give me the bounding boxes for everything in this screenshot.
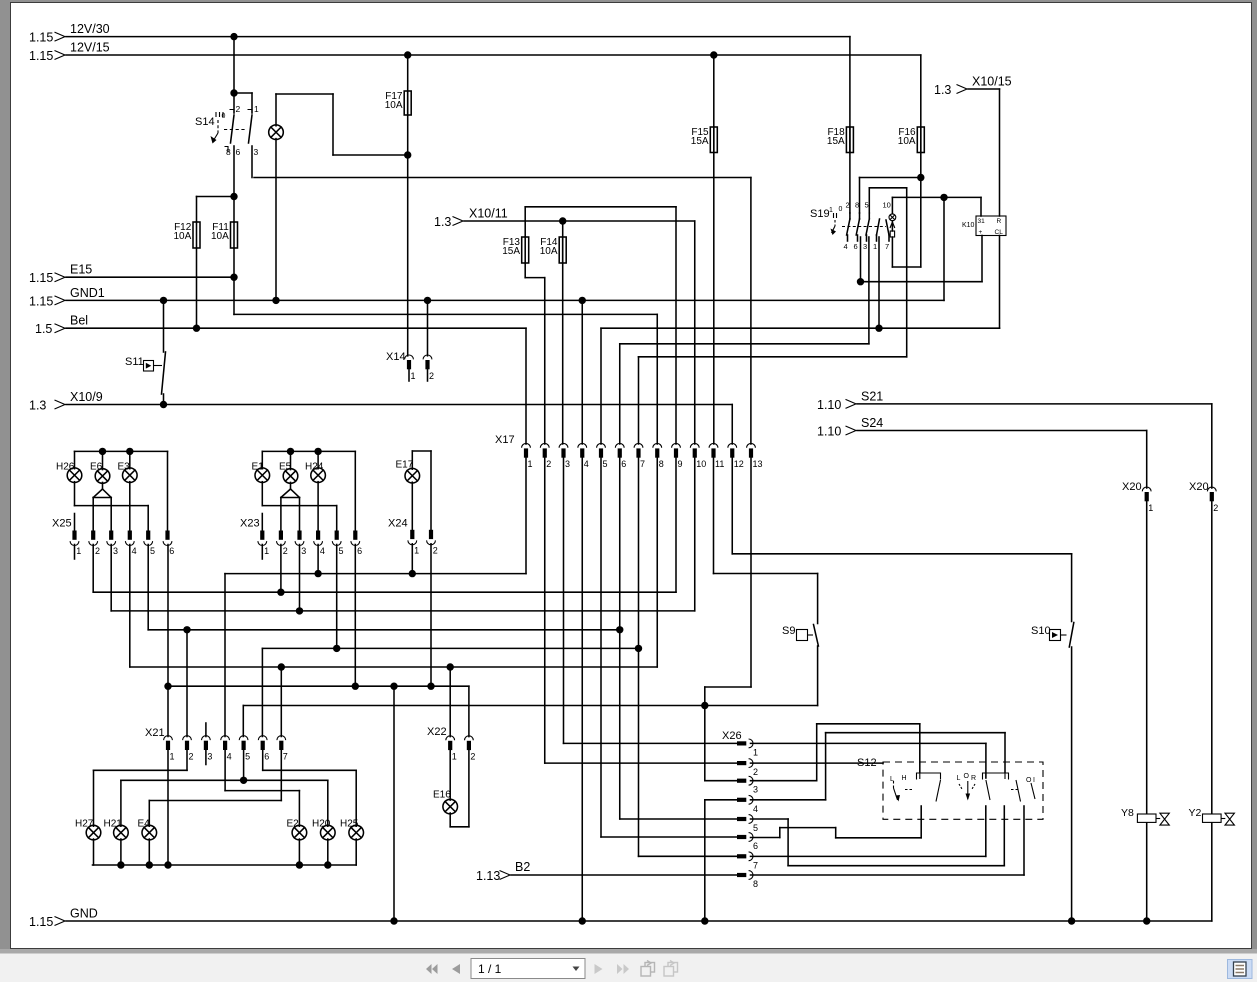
svg-text:1: 1 [829, 207, 833, 214]
svg-text:X10/11: X10/11 [469, 207, 508, 221]
svg-text:1.15: 1.15 [29, 31, 53, 45]
svg-text:15A: 15A [691, 136, 709, 147]
svg-text:Y8: Y8 [1121, 807, 1134, 819]
svg-text:3: 3 [113, 546, 118, 556]
svg-text:1.15: 1.15 [29, 49, 53, 63]
svg-text:15A: 15A [827, 136, 845, 147]
svg-text:X25: X25 [52, 518, 72, 530]
svg-text:10A: 10A [174, 231, 192, 242]
svg-text:10A: 10A [385, 100, 403, 111]
svg-text:1: 1 [452, 752, 457, 762]
svg-text:X20: X20 [1122, 481, 1142, 493]
svg-text:1: 1 [254, 104, 259, 114]
svg-text:15A: 15A [502, 246, 520, 257]
svg-text:2: 2 [470, 752, 475, 762]
svg-text:S21: S21 [861, 390, 883, 404]
svg-text:3: 3 [863, 242, 867, 251]
svg-text:H20: H20 [312, 819, 331, 830]
svg-text:S14: S14 [195, 116, 215, 128]
svg-text:2: 2 [189, 752, 194, 762]
svg-text:5: 5 [150, 546, 155, 556]
svg-text:E16: E16 [433, 790, 451, 801]
svg-text:GND: GND [70, 907, 98, 921]
svg-text:S10: S10 [1031, 625, 1051, 637]
svg-text:1.13: 1.13 [476, 869, 500, 883]
svg-text:1: 1 [264, 546, 269, 556]
svg-text:H26: H26 [56, 462, 75, 473]
svg-text:1: 1 [1148, 503, 1153, 513]
svg-text:E1: E1 [252, 462, 265, 473]
svg-text:1: 1 [528, 459, 533, 469]
svg-text:4: 4 [584, 459, 589, 469]
svg-text:6: 6 [236, 147, 241, 157]
svg-text:X10/9: X10/9 [70, 390, 103, 404]
svg-text:2: 2 [546, 459, 551, 469]
svg-text:H21: H21 [104, 819, 123, 830]
svg-text:S12: S12 [857, 757, 877, 769]
svg-text:GND1: GND1 [70, 286, 105, 300]
svg-text:1.3: 1.3 [29, 399, 46, 413]
svg-text:2: 2 [753, 767, 758, 777]
svg-text:H: H [902, 775, 907, 782]
svg-text:5: 5 [603, 459, 608, 469]
svg-text:31: 31 [978, 218, 986, 225]
svg-text:6: 6 [621, 459, 626, 469]
svg-text:12V/15: 12V/15 [70, 41, 110, 55]
svg-text:4: 4 [753, 804, 758, 814]
svg-text:6: 6 [357, 546, 362, 556]
svg-text:3: 3 [301, 546, 306, 556]
svg-text:12V/30: 12V/30 [70, 22, 110, 36]
svg-text:1.3: 1.3 [934, 83, 951, 97]
svg-text:H25: H25 [340, 819, 359, 830]
svg-text:Bel: Bel [70, 314, 88, 328]
svg-text:1 / 1: 1 / 1 [478, 962, 502, 976]
svg-text:X24: X24 [388, 518, 408, 530]
svg-text:E4: E4 [138, 819, 151, 830]
svg-text:K10: K10 [962, 222, 975, 229]
svg-text:S19: S19 [810, 208, 830, 220]
svg-text:E17: E17 [396, 460, 414, 471]
svg-text:1: 1 [753, 747, 758, 757]
svg-text:X26: X26 [722, 730, 742, 742]
svg-text:2: 2 [283, 546, 288, 556]
svg-text:L: L [957, 775, 961, 782]
svg-text:H24: H24 [305, 462, 324, 473]
svg-text:1.10: 1.10 [817, 398, 841, 412]
svg-text:4: 4 [132, 546, 137, 556]
svg-text:2: 2 [433, 545, 438, 555]
svg-text:E5: E5 [279, 462, 292, 473]
svg-text:9: 9 [678, 459, 683, 469]
svg-text:1.15: 1.15 [29, 295, 53, 309]
svg-text:1.5: 1.5 [35, 322, 52, 336]
svg-text:13: 13 [753, 459, 763, 469]
svg-text:12: 12 [734, 459, 744, 469]
svg-text:5: 5 [245, 752, 250, 762]
svg-text:2: 2 [429, 371, 434, 381]
svg-text:1: 1 [76, 546, 81, 556]
svg-text:S9: S9 [782, 625, 795, 637]
svg-text:X20: X20 [1189, 481, 1209, 493]
svg-text:3: 3 [753, 785, 758, 795]
svg-text:8: 8 [753, 879, 758, 889]
svg-text:10A: 10A [540, 246, 558, 257]
svg-text:X23: X23 [240, 518, 260, 530]
svg-text:3: 3 [207, 752, 212, 762]
svg-text:E6: E6 [90, 462, 103, 473]
svg-text:S24: S24 [861, 416, 883, 430]
svg-text:11: 11 [715, 459, 724, 469]
svg-text:1.3: 1.3 [434, 215, 451, 229]
svg-text:CL: CL [995, 229, 1004, 236]
svg-text:E3: E3 [118, 462, 131, 473]
svg-text:6: 6 [264, 752, 269, 762]
svg-text:2: 2 [95, 546, 100, 556]
svg-text:4: 4 [320, 546, 325, 556]
svg-text:X22: X22 [427, 726, 447, 738]
svg-text:7: 7 [640, 459, 645, 469]
svg-text:X14: X14 [386, 351, 406, 363]
svg-text:1: 1 [414, 545, 419, 555]
svg-text:6: 6 [753, 841, 758, 851]
svg-text:E2: E2 [287, 819, 300, 830]
svg-text:0: 0 [839, 206, 843, 213]
svg-text:6: 6 [854, 242, 858, 251]
svg-text:2: 2 [236, 104, 241, 114]
svg-text:10A: 10A [211, 231, 229, 242]
svg-text:7: 7 [753, 860, 758, 870]
svg-text:1.10: 1.10 [817, 425, 841, 439]
svg-text:3: 3 [565, 459, 570, 469]
svg-text:2: 2 [846, 201, 850, 210]
svg-text:1: 1 [873, 242, 877, 251]
svg-text:X10/15: X10/15 [972, 75, 1012, 89]
svg-text:7: 7 [885, 242, 889, 251]
svg-text:1.15: 1.15 [29, 271, 53, 285]
svg-text:4: 4 [844, 242, 848, 251]
svg-text:R: R [997, 218, 1002, 225]
svg-text:I: I [1033, 777, 1035, 784]
svg-text:X17: X17 [495, 434, 515, 446]
svg-text:S11: S11 [125, 356, 144, 368]
svg-text:+: + [979, 229, 983, 236]
svg-text:8: 8 [855, 201, 859, 210]
svg-text:Y2: Y2 [1189, 807, 1202, 819]
svg-text:3: 3 [254, 147, 259, 157]
svg-text:10: 10 [696, 459, 706, 469]
svg-text:1.15: 1.15 [29, 915, 53, 929]
svg-text:10: 10 [883, 201, 891, 210]
svg-text:E15: E15 [70, 263, 92, 277]
svg-text:8: 8 [659, 459, 664, 469]
svg-text:1: 1 [170, 752, 175, 762]
svg-text:10A: 10A [898, 136, 916, 147]
svg-text:6: 6 [169, 546, 174, 556]
svg-text:5: 5 [865, 201, 869, 210]
svg-text:1: 1 [411, 371, 416, 381]
svg-text:B2: B2 [515, 860, 530, 874]
svg-text:7: 7 [283, 752, 288, 762]
svg-text:R: R [971, 775, 976, 782]
svg-text:2: 2 [1213, 503, 1218, 513]
svg-text:5: 5 [753, 823, 758, 833]
svg-text:H27: H27 [75, 819, 94, 830]
svg-text:O: O [964, 773, 970, 780]
svg-text:5: 5 [339, 546, 344, 556]
svg-text:O: O [1026, 777, 1032, 784]
svg-text:4: 4 [227, 752, 232, 762]
svg-text:X21: X21 [145, 727, 165, 739]
